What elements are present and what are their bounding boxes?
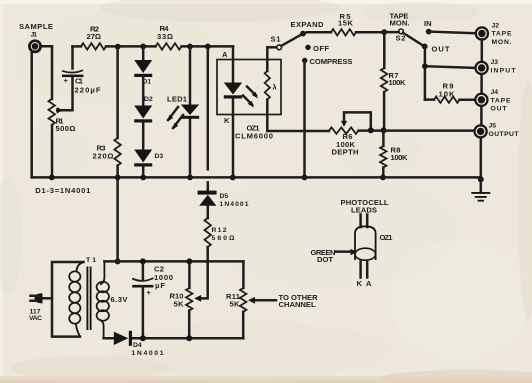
resistor R12 560 ohm (205, 218, 236, 247)
resistor R3 220 ohm (93, 47, 121, 178)
svg-text:1N4001: 1N4001 (220, 201, 249, 208)
svg-text:OZ1: OZ1 (380, 233, 394, 242)
svg-text:27Ω: 27Ω (87, 32, 102, 41)
node D3 / ground bus (140, 175, 146, 181)
wire upper ground bus to lower rail (116, 177, 119, 261)
wire photoresistor lead to R6 (267, 130, 329, 133)
wire R2 to R4 along top rail (106, 45, 156, 48)
switch S1 EXPAND/OFF/COMPRESS (267, 20, 324, 49)
lower negative rail with D4 (104, 337, 244, 340)
svg-text:10K: 10K (439, 89, 456, 98)
diode D5 1N4001 (198, 191, 249, 208)
svg-text:MON.: MON. (390, 19, 410, 28)
wire J5 sleeve down to ground junction (480, 138, 483, 180)
switch contact OUT (422, 44, 450, 54)
diode D3 (134, 150, 163, 167)
svg-text:A: A (366, 279, 372, 288)
svg-text:500Ω: 500Ω (56, 124, 76, 133)
svg-text:OUT: OUT (432, 45, 450, 54)
wire LED1 to ground bus (189, 119, 192, 178)
svg-text:COMPRESS: COMPRESS (310, 57, 353, 66)
svg-text:µF: µF (155, 281, 165, 290)
svg-text:D4: D4 (133, 342, 142, 349)
svg-text:J2: J2 (492, 22, 500, 29)
node top rail / R3 (115, 44, 121, 50)
svg-text:220µF: 220µF (75, 86, 101, 95)
node R10 / lower negative rail (186, 335, 192, 341)
node top rail / LED1 (187, 44, 193, 50)
svg-text:220Ω: 220Ω (93, 152, 114, 161)
svg-text:OUTPUT: OUTPUT (489, 131, 520, 138)
node R7 / R8 / output wire (381, 127, 387, 133)
node top rail / ground-bus junction K line (230, 175, 236, 181)
svg-text:+: + (147, 288, 152, 297)
lower positive rail (104, 260, 243, 263)
node R8 / ground bus (380, 175, 386, 181)
svg-text:TAPE: TAPE (492, 31, 512, 38)
resistor R7 100K (381, 32, 406, 130)
potentiometer R11 5K (226, 261, 246, 338)
node ground-bus / J5 sleeve line (478, 176, 484, 182)
switch contact COMPRESS (302, 57, 353, 66)
node top rail / D5 branch (205, 44, 211, 50)
svg-text:J4: J4 (491, 89, 499, 96)
switch contact IN (424, 19, 432, 34)
svg-text:R12: R12 (212, 227, 227, 234)
resistor R8 100K (380, 130, 408, 177)
svg-text:100K: 100K (389, 78, 407, 87)
primary loop wires (52, 262, 84, 337)
node OUT line / J3 (422, 63, 428, 69)
wire J1 tip right then down to R1 top (41, 46, 53, 99)
svg-text:A: A (222, 50, 228, 59)
wire J1 sleeve down to ground bus (30, 52, 33, 178)
diode D1 (134, 60, 152, 86)
switch S2 TAPE MON. (384, 11, 423, 45)
capacitor C2 1000uF (132, 261, 173, 338)
svg-text:INPUT: INPUT (491, 67, 517, 74)
svg-text:S1: S1 (271, 34, 282, 43)
wire R6 to J5 output (359, 129, 474, 132)
capacitor C1 220uF (62, 46, 101, 94)
svg-text:D2: D2 (144, 96, 153, 103)
node C2 / lower negative rail (140, 335, 146, 341)
wire IN contact to J2 (429, 32, 475, 34)
jack J1 SAMPLE input (19, 22, 53, 52)
optocoupler internal LED (A to K) (222, 46, 273, 177)
svg-text:IN: IN (424, 19, 432, 28)
svg-text:D3: D3 (155, 153, 164, 160)
wire D2 to D3 (142, 123, 145, 150)
wire D1 chain from top rail (142, 46, 145, 60)
wire R12 down to R10 wiper (199, 247, 208, 298)
node top rail / D1 (140, 44, 146, 50)
svg-text:OFF: OFF (313, 44, 329, 53)
node R10 / lower positive rail (186, 258, 192, 264)
jack J4 TAPE OUT (475, 89, 511, 112)
potentiometer R10 5K (170, 261, 193, 338)
resistor R9 10K (425, 81, 473, 103)
wire D5 to R12 (207, 206, 210, 218)
svg-text:J1: J1 (31, 32, 38, 39)
wire J2 to J3 sleeve chain (481, 40, 484, 62)
svg-text:6.3V: 6.3V (111, 295, 129, 304)
optocoupler OZ1 CLM6000 box (217, 60, 281, 115)
resistor R2 27 ohm (73, 24, 107, 49)
AC plug 117 VAC (29, 293, 52, 322)
resistor R1 500 ohm potentiometer (49, 99, 76, 177)
node C2 / lower positive rail (140, 258, 146, 264)
svg-text:D5: D5 (220, 193, 229, 200)
jack J5 OUTPUT (475, 123, 520, 138)
svg-text:D1-3=1N4001: D1-3=1N4001 (35, 186, 91, 195)
resistor R5 15K (331, 12, 356, 36)
svg-text:K: K (224, 116, 230, 125)
svg-text:LED1: LED1 (167, 94, 188, 103)
node R1 / ground bus (49, 175, 55, 181)
svg-text:MON.: MON. (492, 39, 512, 46)
node R6 wiper junction (368, 127, 374, 133)
ground bus of upper section (32, 176, 481, 179)
svg-text:DOT: DOT (317, 255, 333, 264)
svg-text:C1: C1 (75, 76, 84, 85)
photocell detail drawing OZ1 (311, 198, 394, 288)
svg-text:SAMPLE: SAMPLE (19, 22, 53, 31)
svg-text:5K: 5K (174, 299, 185, 308)
LED LED1 (167, 94, 200, 129)
resistor R4 33 ohm (156, 24, 182, 49)
svg-text:15K: 15K (338, 18, 354, 27)
svg-text:S2: S2 (396, 33, 406, 42)
wire J3 to J4 sleeve chain (480, 74, 483, 94)
potentiometer R6 100K DEPTH (329, 112, 371, 156)
svg-text:TAPE: TAPE (491, 97, 511, 104)
node LED1 / ground bus (187, 175, 193, 181)
svg-text:VAC: VAC (29, 315, 42, 322)
ground symbol (471, 179, 490, 200)
svg-text:33Ω: 33Ω (157, 32, 173, 41)
node R3 line / ground bus (115, 175, 121, 181)
wire LED1 from top rail (189, 46, 192, 105)
transformer T1 (69, 257, 128, 338)
node R5 / S2 / R7 (381, 29, 387, 35)
svg-text:CHANNEL: CHANNEL (279, 300, 316, 309)
svg-text:K: K (357, 279, 363, 288)
svg-text:EXPAND: EXPAND (291, 20, 325, 29)
node COMPRESS / ground bus (302, 175, 308, 181)
wire D3 to ground bus (142, 167, 145, 178)
R10 wiper arrow (194, 295, 201, 302)
jack J2 TAPE MON (476, 22, 512, 45)
svg-text:LEADS: LEADS (351, 205, 377, 214)
label TO OTHER CHANNEL (279, 293, 319, 309)
svg-text:OUT: OUT (491, 106, 508, 113)
svg-text:J3: J3 (491, 59, 499, 66)
svg-text:560Ω: 560Ω (212, 235, 236, 242)
node lower rail / connector (115, 258, 121, 264)
diode D4 1N4001 (114, 331, 164, 357)
wire OUT contact down / to J3 / to R9 (425, 46, 473, 99)
svg-text:DEPTH: DEPTH (332, 148, 359, 157)
svg-text:100K: 100K (391, 153, 409, 162)
svg-text:CLM6000: CLM6000 (235, 132, 273, 141)
jack J3 INPUT (476, 59, 517, 74)
wire J4 to J5 sleeve chain (480, 106, 483, 126)
wire EXPAND contact to R5 (303, 32, 331, 33)
svg-text:5K: 5K (230, 300, 241, 309)
wire R4 to optocoupler anode corner (182, 45, 234, 48)
optocoupler photoresistor lambda (265, 47, 278, 131)
diode D2 (134, 96, 153, 123)
wire D5 branch from top rail (break at ground bus) (207, 46, 210, 190)
wire R5 to tape-mon node (356, 31, 384, 34)
wire D1 to D2 (142, 77, 145, 106)
switch contact OFF (305, 44, 329, 53)
R1 wiper arrow from C1 negative lead (56, 77, 73, 114)
wire COMPRESS contact down to ground bus (303, 61, 306, 178)
svg-text:+: + (64, 76, 69, 85)
svg-text:J5: J5 (489, 123, 497, 130)
R11 wiper from other channel (248, 297, 276, 304)
